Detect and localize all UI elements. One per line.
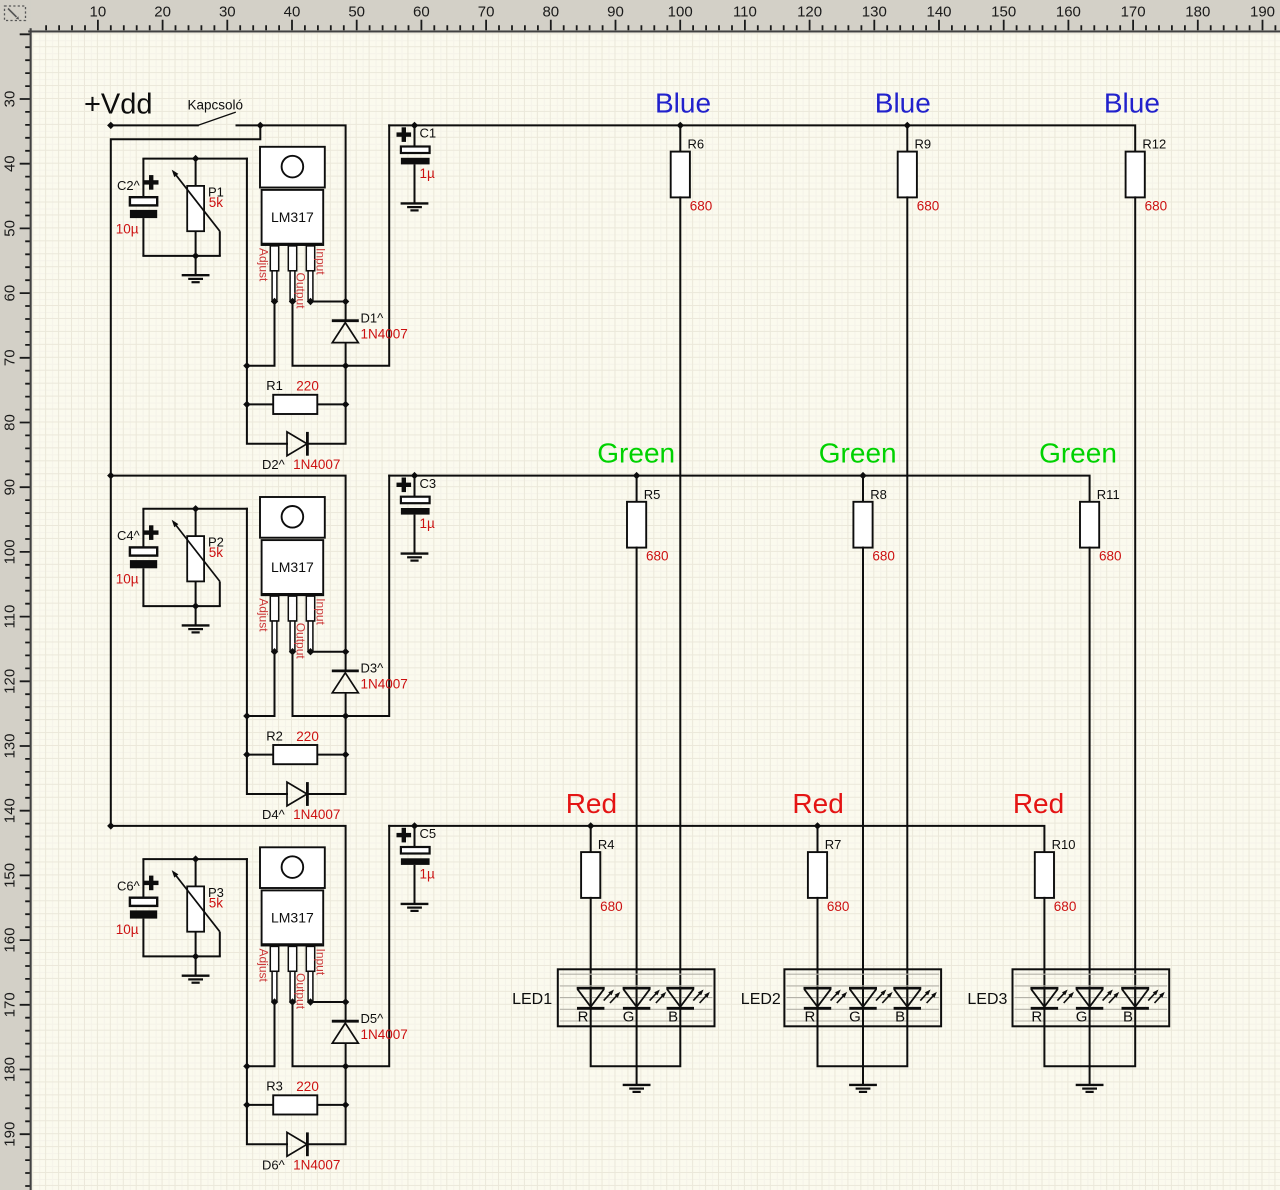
resistor R5 680 [627, 502, 646, 548]
wire R5 bottom lead [636, 548, 638, 1009]
svg-text:B: B [1123, 1009, 1133, 1026]
svg-text:R11: R11 [1097, 487, 1120, 502]
wire output to R2 right [307, 716, 345, 794]
wire +Vdd to switch [111, 124, 198, 126]
wire R5 top lead [636, 476, 638, 502]
svg-text:Green: Green [819, 438, 897, 469]
svg-text:5k: 5k [209, 895, 224, 910]
svg-text:680: 680 [600, 899, 623, 914]
regulator U1 LM317 [260, 147, 325, 188]
svg-text:70: 70 [478, 4, 495, 21]
wire R8 top lead [862, 476, 864, 502]
svg-text:1N4007: 1N4007 [293, 457, 340, 472]
junction adjust/output row left P2 [243, 712, 250, 719]
junction input column P3 [342, 998, 349, 1005]
svg-text:40: 40 [284, 4, 301, 21]
wire adjust drop P2 [247, 652, 275, 716]
LED LED3 R chip [1043, 988, 1045, 1008]
svg-text:LED2: LED2 [741, 991, 781, 1008]
svg-text:220: 220 [296, 729, 319, 744]
junction R3 left [243, 1101, 250, 1108]
wire R8 bottom lead [862, 548, 864, 1009]
svg-text:680: 680 [872, 549, 895, 564]
junction adjust/output row left P3 [243, 1063, 250, 1070]
svg-text:R7: R7 [825, 837, 842, 852]
junction P2 bottom [192, 602, 199, 609]
svg-text:10µ: 10µ [116, 922, 139, 937]
svg-text:100: 100 [2, 539, 19, 564]
svg-text:Red: Red [1013, 788, 1064, 819]
svg-text:R1: R1 [266, 378, 283, 393]
junction R9 top [904, 122, 911, 129]
svg-text:190: 190 [1250, 4, 1275, 21]
junction R4 top [587, 822, 594, 829]
svg-text:C5: C5 [420, 826, 437, 841]
junction R7 top [814, 822, 821, 829]
svg-text:150: 150 [991, 4, 1016, 21]
resistor R11 680 [1080, 502, 1099, 548]
svg-text:10µ: 10µ [116, 572, 139, 587]
svg-text:680: 680 [917, 198, 940, 213]
svg-text:130: 130 [2, 733, 19, 758]
junction output row P3 [342, 1063, 349, 1070]
svg-text:Adjust: Adjust [257, 949, 271, 983]
diode D6* 1N4007 [287, 1132, 307, 1156]
junction output row P2 [342, 712, 349, 719]
wire R6 bottom lead [679, 197, 681, 1008]
svg-text:D2^: D2^ [262, 457, 286, 472]
wire switch to LM317 input column [237, 125, 346, 301]
wire C6*/P3 top [143, 858, 247, 860]
resistor R12 680 [1126, 152, 1145, 198]
wire LED1 ground stub [636, 1008, 638, 1084]
svg-text:C2^: C2^ [117, 178, 141, 193]
svg-text:160: 160 [1056, 4, 1081, 21]
wire R12 bottom lead [1134, 197, 1136, 1008]
svg-text:680: 680 [646, 549, 669, 564]
wire C6*/P3 bottom [143, 955, 219, 957]
junction P3 top [192, 855, 199, 862]
top ruler [0, 0, 1280, 30]
svg-text:20: 20 [154, 4, 171, 21]
LED LED2 B chip [906, 988, 908, 1008]
junction at switch output [257, 122, 264, 129]
diode D5* 1N4007 [345, 1002, 347, 1021]
module LED2 body [784, 969, 941, 1026]
potentiometer P1 [195, 159, 197, 186]
svg-text:160: 160 [2, 928, 19, 953]
wire output drop P1 [293, 125, 390, 365]
svg-text:120: 120 [797, 4, 822, 21]
svg-text:40: 40 [2, 155, 19, 172]
svg-text:+Vdd: +Vdd [84, 89, 153, 121]
junction input pin P2 [307, 648, 314, 655]
junction P2 top [192, 505, 199, 512]
svg-text:LM317: LM317 [271, 910, 314, 926]
LED LED1 B chip [679, 988, 681, 1008]
resistor R3 220 [247, 1104, 273, 1106]
svg-text:R10: R10 [1052, 837, 1076, 852]
svg-text:Blue: Blue [875, 87, 931, 118]
svg-text:60: 60 [2, 285, 19, 302]
wire R4 bottom lead [590, 898, 592, 1008]
svg-text:D6^: D6^ [262, 1158, 286, 1173]
potentiometer P3 [195, 859, 197, 886]
wire adjust node P3 [247, 859, 287, 1144]
svg-text:D1^: D1^ [361, 311, 385, 326]
junction C5 top [411, 822, 418, 829]
svg-text:LM317: LM317 [271, 209, 314, 225]
junction R3 right [342, 1101, 349, 1108]
svg-text:C1: C1 [420, 126, 437, 141]
junction adjust/output row left P1 [243, 362, 250, 369]
svg-text:C6^: C6^ [117, 879, 141, 894]
svg-text:LED1: LED1 [512, 991, 552, 1008]
wire R9 bottom lead [906, 197, 908, 1008]
svg-text:10: 10 [90, 4, 107, 21]
wire C2*/P1 top [143, 158, 247, 160]
ground P2 [182, 625, 210, 632]
wire output drop P2 [293, 476, 390, 716]
svg-text:30: 30 [219, 4, 236, 21]
svg-text:Output: Output [294, 973, 308, 1010]
junction input column P2 [342, 648, 349, 655]
diode D1* 1N4007 [345, 302, 347, 321]
wire LED2 ground stub [862, 1008, 864, 1084]
svg-text:90: 90 [2, 479, 19, 496]
svg-text:R4: R4 [598, 837, 615, 852]
resistor R8 680 [853, 502, 872, 548]
svg-text:R9: R9 [915, 137, 932, 152]
svg-text:60: 60 [413, 4, 430, 21]
svg-text:5k: 5k [209, 545, 224, 560]
LED LED3 G chip [1089, 988, 1091, 1008]
svg-text:50: 50 [2, 220, 19, 237]
svg-text:90: 90 [607, 4, 624, 21]
svg-text:190: 190 [2, 1122, 19, 1147]
resistor R10 680 [1035, 852, 1054, 898]
svg-text:1N4007: 1N4007 [293, 807, 340, 822]
wire LED3 ground stub [1089, 1008, 1091, 1084]
svg-text:B: B [895, 1009, 905, 1026]
svg-text:120: 120 [2, 669, 19, 694]
svg-text:5k: 5k [209, 195, 224, 210]
svg-text:680: 680 [1099, 549, 1122, 564]
wire LED2 cathode bus [818, 1008, 908, 1066]
wire R7 top lead [817, 826, 819, 852]
svg-text:G: G [1076, 1009, 1088, 1026]
svg-text:LED3: LED3 [967, 991, 1007, 1008]
svg-text:C4^: C4^ [117, 528, 141, 543]
wire output to R3 right [307, 1066, 345, 1144]
svg-text:Blue: Blue [1104, 87, 1160, 118]
junction R6 top [677, 122, 684, 129]
svg-text:170: 170 [2, 992, 19, 1017]
svg-text:R6: R6 [688, 137, 705, 152]
junction R1 right [342, 401, 349, 408]
junction R5 top [633, 472, 640, 479]
wire R4 top lead [590, 826, 592, 852]
svg-text:R: R [1031, 1009, 1042, 1026]
svg-text:Input: Input [314, 248, 328, 275]
diode D3* 1N4007 [345, 652, 347, 671]
regulator U2 LM317 [260, 497, 325, 538]
svg-text:R: R [804, 1009, 815, 1026]
wire output to R1 right [307, 366, 345, 444]
svg-text:170: 170 [1121, 4, 1146, 21]
junction R8 top [859, 472, 866, 479]
wire +Vdd trunk [111, 125, 260, 826]
wire Red rail [389, 826, 1044, 852]
junction P1 top [192, 155, 199, 162]
ground LED3 [1076, 1085, 1104, 1092]
wire supply rail block P3 [111, 826, 346, 1002]
svg-text:180: 180 [2, 1057, 19, 1082]
junction trunk block2 [107, 472, 114, 479]
junction C3 top [411, 472, 418, 479]
svg-text:1µ: 1µ [420, 867, 436, 882]
svg-text:D3^: D3^ [361, 661, 385, 676]
svg-text:Adjust: Adjust [257, 248, 271, 282]
svg-text:R5: R5 [644, 487, 661, 502]
wire input pin link P1 [311, 301, 346, 303]
module LED1 body [558, 969, 715, 1026]
diode D4* 1N4007 [287, 782, 307, 806]
junction input pin P1 [307, 298, 314, 305]
ground LED2 [849, 1085, 877, 1092]
wire C2*/P1 bottom [143, 255, 219, 257]
wire R9 top lead [906, 125, 908, 151]
svg-text:1N4007: 1N4007 [361, 327, 408, 342]
junction C1 top [411, 122, 418, 129]
capacitor C6* [142, 859, 144, 898]
junction trunk block3 [107, 822, 114, 829]
wire supply rail block P2 [111, 476, 346, 652]
svg-text:D4^: D4^ [262, 807, 286, 822]
ground LED1 [623, 1085, 651, 1092]
capacitor C5 1u [414, 826, 416, 847]
junction P3 bottom [192, 953, 199, 960]
wire Green rail [389, 476, 1089, 502]
svg-text:140: 140 [926, 4, 951, 21]
svg-text:110: 110 [733, 4, 757, 21]
svg-text:R8: R8 [870, 487, 887, 502]
LED LED2 R chip [817, 988, 819, 1008]
svg-text:Input: Input [314, 949, 328, 976]
svg-text:LM317: LM317 [271, 559, 314, 575]
svg-text:G: G [623, 1009, 635, 1026]
svg-text:680: 680 [690, 198, 713, 213]
svg-text:Output: Output [294, 623, 308, 660]
svg-text:130: 130 [862, 4, 887, 21]
junction adjust pin P2 [271, 648, 278, 655]
wire adjust drop P1 [247, 302, 275, 366]
svg-text:Kapcsoló: Kapcsoló [188, 98, 244, 113]
ground C1 [401, 203, 429, 210]
ground C3 [401, 554, 429, 561]
svg-text:180: 180 [1185, 4, 1210, 21]
svg-text:140: 140 [2, 798, 19, 823]
svg-text:C3: C3 [420, 476, 437, 491]
junction R2 left [243, 751, 250, 758]
svg-text:B: B [668, 1009, 678, 1026]
potentiometer P2 [195, 509, 197, 536]
capacitor C4* [142, 509, 144, 548]
svg-text:70: 70 [2, 349, 19, 366]
regulator U3 LM317 [260, 847, 325, 888]
svg-text:Input: Input [314, 598, 328, 625]
resistor R2 220 [247, 754, 273, 756]
svg-text:150: 150 [2, 863, 19, 888]
svg-text:80: 80 [2, 414, 19, 431]
resistor R7 680 [808, 852, 827, 898]
LED LED3 B chip [1134, 988, 1136, 1008]
junction adjust pin P1 [271, 298, 278, 305]
svg-text:110: 110 [2, 605, 19, 629]
switch SW1 blade [198, 112, 236, 125]
svg-text:10µ: 10µ [116, 222, 139, 237]
wire C4*/P2 top [143, 508, 247, 510]
resistor R6 680 [671, 152, 690, 198]
svg-text:80: 80 [542, 4, 559, 21]
junction output row P1 [342, 362, 349, 369]
wire output drop P3 [293, 826, 390, 1066]
svg-text:Blue: Blue [655, 87, 711, 118]
capacitor C3 1u [414, 476, 416, 497]
wire adjust node P1 [247, 159, 287, 444]
svg-text:Red: Red [566, 788, 617, 819]
svg-text:680: 680 [1054, 899, 1077, 914]
svg-text:1N4007: 1N4007 [293, 1158, 340, 1173]
wire LED3 cathode bus [1044, 1008, 1135, 1066]
wire C4*/P2 bottom [143, 605, 219, 607]
LED LED1 R chip [590, 988, 592, 1008]
svg-text:R2: R2 [266, 728, 283, 743]
ground C5 [401, 904, 429, 911]
junction R1 left [243, 401, 250, 408]
wire input pin link P3 [311, 1001, 346, 1003]
resistor R4 680 [581, 852, 600, 898]
wire adjust drop P3 [247, 1002, 275, 1066]
svg-text:R: R [578, 1009, 589, 1026]
junction output pin P3 [289, 998, 296, 1005]
node +Vdd terminal [107, 122, 114, 129]
svg-text:30: 30 [2, 91, 19, 108]
junction output pin P2 [289, 648, 296, 655]
svg-text:100: 100 [668, 4, 693, 21]
junction P1 bottom [192, 252, 199, 259]
svg-text:Output: Output [294, 273, 308, 310]
wire LED1 cathode bus [591, 1008, 681, 1066]
svg-text:Red: Red [792, 788, 843, 819]
junction adjust pin P3 [271, 998, 278, 1005]
wire R7 bottom lead [817, 898, 819, 1008]
resistor R9 680 [898, 152, 917, 198]
module LED3 body [1013, 969, 1170, 1026]
ground P1 [182, 275, 210, 282]
svg-text:220: 220 [296, 379, 319, 394]
svg-text:220: 220 [296, 1079, 319, 1094]
svg-text:G: G [849, 1009, 861, 1026]
junction input column P1 [342, 298, 349, 305]
svg-text:50: 50 [348, 4, 365, 21]
svg-text:680: 680 [827, 899, 850, 914]
svg-text:R3: R3 [266, 1079, 283, 1094]
left ruler [0, 0, 30, 1190]
wire R11 bottom lead [1089, 548, 1091, 1009]
wire input pin link P2 [311, 651, 346, 653]
svg-text:680: 680 [1145, 198, 1168, 213]
diode D2* 1N4007 [287, 432, 307, 456]
svg-text:Green: Green [597, 438, 675, 469]
svg-text:R12: R12 [1142, 137, 1166, 152]
svg-text:D5^: D5^ [361, 1011, 385, 1026]
svg-text:1µ: 1µ [420, 166, 436, 181]
wire R10 bottom lead [1043, 898, 1045, 1008]
LED LED1 G chip [636, 988, 638, 1008]
resistor R1 220 [247, 403, 273, 405]
capacitor C1 1u [414, 125, 416, 146]
ground P3 [182, 976, 210, 983]
capacitor C2* [142, 159, 144, 198]
junction R2 right [342, 751, 349, 758]
LED LED2 G chip [862, 988, 864, 1008]
wire Blue rail [389, 125, 1135, 151]
wire adjust node P2 [247, 509, 287, 794]
junction output pin P1 [289, 298, 296, 305]
junction input pin P3 [307, 998, 314, 1005]
svg-text:Green: Green [1039, 438, 1117, 469]
svg-text:1N4007: 1N4007 [361, 677, 408, 692]
svg-text:1µ: 1µ [420, 516, 436, 531]
wire R6 top lead [679, 125, 681, 151]
origin marker [5, 6, 26, 21]
svg-text:1N4007: 1N4007 [361, 1027, 408, 1042]
svg-text:Adjust: Adjust [257, 598, 271, 632]
